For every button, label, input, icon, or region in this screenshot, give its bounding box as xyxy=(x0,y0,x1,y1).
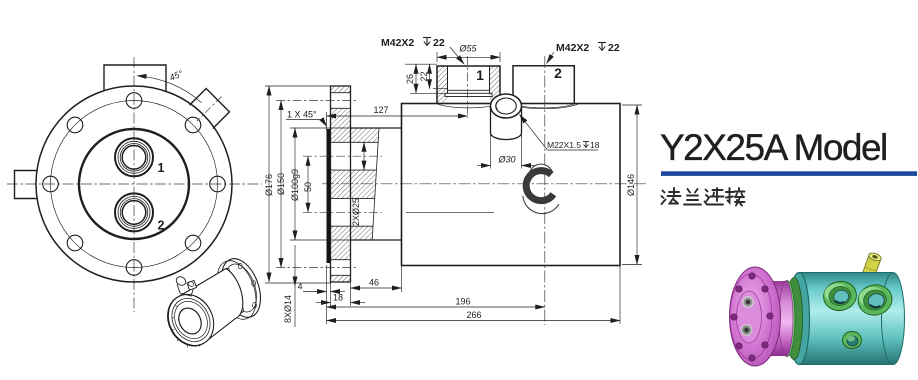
depth symbol left xyxy=(423,38,431,46)
char LAN xyxy=(684,189,701,205)
svg-text:266: 266 xyxy=(466,310,481,320)
M42 right leader xyxy=(547,52,555,64)
flange port holes xyxy=(743,297,753,307)
svg-text:18: 18 xyxy=(333,293,343,303)
center boss cylinder xyxy=(491,106,522,140)
boss bore ellipse xyxy=(496,98,517,114)
svg-text:2XØ25: 2XØ25 xyxy=(351,198,361,226)
bolt hole centerlines xyxy=(276,100,358,102)
wf bearing ticks xyxy=(172,306,201,348)
hub hatch mid band xyxy=(351,170,377,198)
svg-text:1: 1 xyxy=(476,67,484,83)
svg-text:Ø55: Ø55 xyxy=(458,44,477,54)
yellow fitting xyxy=(860,252,882,284)
rotor boss circle (bold) xyxy=(79,129,189,239)
flange plate hatch mid xyxy=(331,170,351,198)
flange plate hatch xyxy=(331,108,351,142)
char LIAN xyxy=(705,188,724,205)
ext hub top xyxy=(290,127,351,129)
svg-text:45°: 45° xyxy=(168,68,185,83)
port2 passage edges xyxy=(331,197,375,199)
8xd14 leader xyxy=(294,245,296,286)
svg-text:M22X1.5: M22X1.5 xyxy=(547,140,581,150)
bolt hole 45deg xyxy=(185,117,201,133)
dia146 dim xyxy=(622,104,642,106)
svg-text:Ø30: Ø30 xyxy=(497,155,515,165)
port1 block left wall xyxy=(437,66,448,104)
port1 block right wall xyxy=(490,66,501,104)
svg-text:1 X 45°: 1 X 45° xyxy=(287,110,317,120)
port 1 front rings xyxy=(115,138,153,176)
port1 seat xyxy=(445,93,492,96)
magenta rotor xyxy=(768,281,786,356)
bolt hole 180deg xyxy=(43,176,59,192)
green port A xyxy=(821,278,859,313)
vertical centerline xyxy=(133,57,135,312)
svg-text:M42X2: M42X2 xyxy=(381,37,414,49)
flange plate hatch bottom xyxy=(331,275,351,282)
50 dim line xyxy=(307,156,309,212)
dia176 dim line xyxy=(268,86,270,282)
flange plate hatch top xyxy=(331,86,351,93)
svg-text:22: 22 xyxy=(419,71,429,81)
char FA xyxy=(662,188,681,204)
wf front face rings xyxy=(160,287,223,354)
wf flange bolt holes xyxy=(226,263,257,312)
bolt hole 0deg xyxy=(210,176,226,192)
flange raised face (solid) xyxy=(327,129,331,263)
port 2 front rings xyxy=(115,193,153,231)
char JIE xyxy=(726,188,745,206)
port1 spotface arc xyxy=(437,104,500,108)
wf flange disc xyxy=(214,253,268,322)
svg-text:Y2X25A Model: Y2X25A Model xyxy=(660,127,887,168)
svg-text:196: 196 xyxy=(455,297,470,307)
hub outline top xyxy=(351,127,402,129)
266 dim xyxy=(619,266,621,324)
ext line flange top xyxy=(265,85,331,87)
wf body cylinder silhouette xyxy=(168,269,243,346)
ext line flange bottom xyxy=(265,282,331,284)
bolt circle xyxy=(51,101,218,268)
cyan body cylinder xyxy=(799,273,893,365)
flange plate outline xyxy=(331,86,351,282)
hub hatch top band xyxy=(351,128,380,142)
small bottom port xyxy=(843,332,862,349)
M42 left leader xyxy=(450,47,464,64)
boss thread arc xyxy=(496,98,505,109)
18 dim xyxy=(350,283,352,306)
depth symbol right xyxy=(598,43,606,51)
port passage centerlines xyxy=(303,155,382,157)
1x45 leader xyxy=(286,119,322,121)
bolt hole 270deg xyxy=(126,260,142,276)
svg-text:18: 18 xyxy=(590,140,600,150)
svg-text:M42X2: M42X2 xyxy=(556,42,589,54)
svg-text:4: 4 xyxy=(297,282,302,292)
boss top ellipse xyxy=(491,94,522,118)
127 dim xyxy=(326,112,328,130)
svg-text:8XØ14: 8XØ14 xyxy=(283,295,293,323)
svg-text:127: 127 xyxy=(373,105,388,115)
dia55 dim xyxy=(436,52,438,62)
dia150 dim line xyxy=(280,101,282,268)
hub section slant boundary xyxy=(372,128,379,240)
svg-text:26: 26 xyxy=(405,74,415,84)
svg-text:Ø150: Ø150 xyxy=(276,173,286,195)
dia100g9 dim line xyxy=(294,128,296,240)
chinese subtitle 法兰连接 xyxy=(662,188,745,206)
bolt hole 315deg xyxy=(185,235,201,251)
22 dim xyxy=(429,64,431,89)
port2 spotface arcs xyxy=(513,104,574,108)
svg-text:Ø100g9: Ø100g9 xyxy=(290,169,300,201)
svg-text:1: 1 xyxy=(158,161,165,175)
horizontal centerline xyxy=(7,183,262,185)
svg-text:22: 22 xyxy=(608,42,620,54)
M22 leader xyxy=(520,115,548,150)
C logo xyxy=(523,164,559,213)
green bearing rings xyxy=(786,278,803,360)
2xd25 dim arrows xyxy=(363,142,365,170)
svg-text:50: 50 xyxy=(303,182,313,192)
blue underline bar xyxy=(661,171,917,176)
dia30 dim xyxy=(490,132,492,169)
flange outer circle xyxy=(36,86,232,282)
bolt hole 135deg xyxy=(67,117,83,133)
port1 passage edges xyxy=(331,141,379,143)
svg-text:Ø176: Ø176 xyxy=(264,174,274,196)
45deg dimension arc xyxy=(137,76,202,103)
hub hatch bottom band xyxy=(351,226,374,240)
196 dim xyxy=(327,306,545,308)
svg-text:2: 2 xyxy=(158,219,165,233)
ext hub bottom xyxy=(290,239,351,241)
4 dim xyxy=(326,265,328,324)
svg-text:2: 2 xyxy=(554,65,562,81)
wf top fitting xyxy=(175,275,197,296)
26 dim xyxy=(405,63,437,65)
rotated tab 45deg xyxy=(185,85,233,133)
port2 block xyxy=(513,66,574,104)
port1 centerline xyxy=(467,56,469,118)
body horizontal centerline xyxy=(322,183,648,185)
port1 inner walls xyxy=(447,66,449,93)
port2 centerline xyxy=(544,56,546,325)
port1 block outline xyxy=(437,66,500,104)
flange bolt holes xyxy=(731,273,773,361)
green port B xyxy=(855,282,894,318)
hub outline bottom xyxy=(351,239,402,241)
svg-text:46: 46 xyxy=(369,278,379,288)
svg-text:Ø146: Ø146 xyxy=(626,174,636,196)
left tab xyxy=(15,171,38,199)
body outline xyxy=(402,104,621,266)
bolt hole 90deg xyxy=(126,93,142,109)
bolt hole bottom edges xyxy=(331,259,351,261)
svg-text:22: 22 xyxy=(433,37,445,49)
port1 thread relief xyxy=(448,89,490,91)
bolt hole top edges xyxy=(331,92,351,94)
flange plate hatch xyxy=(331,226,351,260)
magenta flange disc xyxy=(730,267,781,366)
top tab xyxy=(104,65,166,92)
46 dim xyxy=(401,266,403,292)
body inner bore line xyxy=(406,211,494,213)
bolt hole 225deg xyxy=(67,235,83,251)
